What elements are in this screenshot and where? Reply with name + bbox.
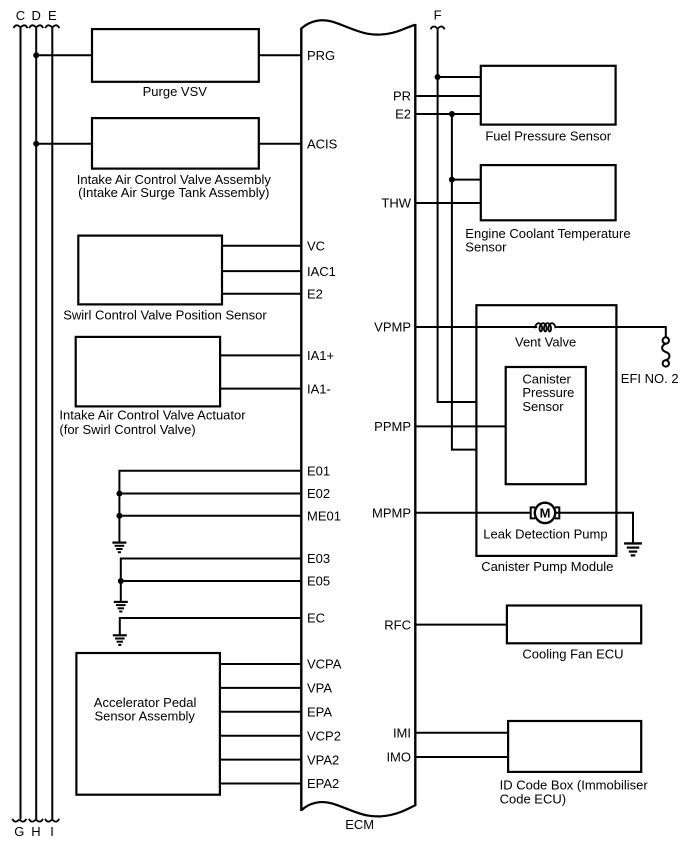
connector H bbox=[29, 819, 43, 839]
junction dot E05 bbox=[118, 578, 124, 584]
wire IMI bbox=[415, 732, 508, 734]
svg-text:IMO: IMO bbox=[386, 750, 411, 765]
wire E05 bbox=[121, 580, 301, 582]
connector E bbox=[45, 8, 59, 28]
svg-text:D: D bbox=[32, 8, 41, 23]
wire VCP2 bbox=[220, 735, 301, 737]
connector F bbox=[431, 8, 445, 30]
ground 1 bbox=[112, 543, 126, 553]
svg-text:E02: E02 bbox=[307, 486, 330, 501]
svg-text:E: E bbox=[48, 8, 57, 23]
fuse EFI NO. 2 bbox=[662, 337, 669, 366]
svg-text:Sensor: Sensor bbox=[522, 399, 564, 414]
svg-text:E2: E2 bbox=[395, 107, 411, 122]
wire RFC bbox=[415, 624, 507, 626]
svg-text:Pressure: Pressure bbox=[522, 385, 574, 400]
wire rail E bbox=[51, 28, 53, 820]
svg-text:E05: E05 bbox=[307, 574, 330, 589]
Fuel Pressure Sensor bbox=[481, 66, 616, 144]
svg-text:PR: PR bbox=[393, 89, 411, 104]
wire VCPA bbox=[220, 663, 301, 665]
svg-text:VC: VC bbox=[307, 239, 325, 254]
ground 3 bbox=[113, 635, 127, 645]
wire THW bbox=[415, 202, 481, 204]
junction dot ECT branch bbox=[449, 177, 455, 183]
wire EPA bbox=[220, 711, 301, 713]
svg-text:PPMP: PPMP bbox=[374, 419, 411, 434]
svg-text:VPA: VPA bbox=[307, 681, 332, 696]
ground 2 bbox=[114, 602, 128, 612]
wire VC bbox=[222, 245, 301, 247]
wire E03 bbox=[121, 559, 301, 602]
wire E02 bbox=[119, 493, 301, 495]
svg-text:H: H bbox=[31, 824, 40, 839]
wire D to Purge VSV bbox=[36, 54, 92, 56]
svg-text:IA1-: IA1- bbox=[307, 381, 331, 396]
ground 4 bbox=[624, 543, 642, 555]
svg-text:Canister Pump Module: Canister Pump Module bbox=[481, 559, 613, 574]
junction dot E2 branch bbox=[449, 111, 455, 117]
junction dot E02 bbox=[116, 491, 122, 497]
junction dot F branch bbox=[435, 74, 441, 80]
svg-text:Swirl Control Valve Position S: Swirl Control Valve Position Sensor bbox=[63, 308, 267, 323]
wire IA1+ bbox=[220, 354, 301, 356]
wire IA1- bbox=[220, 388, 301, 390]
svg-text:Code ECU): Code ECU) bbox=[500, 792, 566, 807]
wire E2 left bbox=[222, 293, 301, 295]
inductor vent valve coil bbox=[535, 323, 557, 331]
svg-text:EFI NO. 2: EFI NO. 2 bbox=[621, 371, 679, 386]
Intake Air Control Valve Assembly bbox=[77, 118, 272, 200]
svg-text:E03: E03 bbox=[307, 551, 330, 566]
wire IAC1 bbox=[222, 270, 301, 272]
wire F branch to Fuel Pressure Sensor bbox=[438, 76, 481, 78]
junction dot D/Purge bbox=[33, 52, 39, 58]
Intake Air Control Valve Actuator bbox=[59, 337, 246, 437]
svg-text:VPA2: VPA2 bbox=[307, 752, 339, 767]
svg-text:VCP2: VCP2 bbox=[307, 728, 341, 743]
wire PPMP bbox=[415, 425, 505, 427]
svg-text:M: M bbox=[540, 506, 551, 521]
wire F line bbox=[438, 29, 506, 402]
svg-text:ECM: ECM bbox=[345, 817, 374, 832]
motor leak detection pump bbox=[531, 503, 560, 523]
connector I bbox=[45, 819, 59, 839]
connector C bbox=[14, 8, 28, 28]
svg-text:IMI: IMI bbox=[393, 726, 411, 741]
Canister Pump Module box bbox=[476, 305, 616, 574]
svg-text:PRG: PRG bbox=[307, 48, 335, 63]
wire ECT top branch bbox=[452, 179, 481, 181]
svg-text:E2: E2 bbox=[307, 287, 323, 302]
svg-text:VCPA: VCPA bbox=[307, 657, 342, 672]
svg-text:ACIS: ACIS bbox=[307, 136, 338, 151]
Cooling Fan ECU bbox=[507, 606, 641, 662]
svg-text:ID Code Box (Immobiliser: ID Code Box (Immobiliser bbox=[500, 777, 649, 792]
svg-text:MPMP: MPMP bbox=[372, 505, 411, 520]
wire IMO bbox=[415, 756, 508, 758]
svg-text:Sensor: Sensor bbox=[465, 239, 507, 254]
wire PR bbox=[415, 95, 481, 97]
wire MPMP bbox=[415, 512, 531, 514]
svg-text:G: G bbox=[14, 824, 24, 839]
junction dot D/ACIS bbox=[33, 141, 39, 147]
ECM U1 body bbox=[301, 20, 415, 816]
svg-text:RFC: RFC bbox=[384, 617, 411, 632]
wire E2 right bbox=[415, 113, 481, 115]
svg-text:VPMP: VPMP bbox=[374, 320, 411, 335]
svg-text:THW: THW bbox=[381, 196, 411, 211]
wire ME01 bbox=[119, 515, 301, 517]
wire VPMP bbox=[415, 326, 537, 328]
svg-text:C: C bbox=[16, 8, 25, 23]
svg-text:I: I bbox=[50, 824, 54, 839]
wire vent valve to EFI bbox=[557, 327, 666, 338]
wire VPA bbox=[220, 687, 301, 689]
svg-text:Cooling Fan ECU: Cooling Fan ECU bbox=[522, 646, 623, 661]
wire Purge VSV to PRG bbox=[259, 54, 302, 56]
svg-text:EC: EC bbox=[307, 611, 325, 626]
svg-text:IAC1: IAC1 bbox=[307, 264, 336, 279]
Purge VSV bbox=[92, 29, 259, 99]
svg-text:Purge VSV: Purge VSV bbox=[143, 84, 208, 99]
svg-text:F: F bbox=[434, 8, 442, 23]
svg-text:Vent Valve: Vent Valve bbox=[515, 334, 576, 349]
junction dot ME01 bbox=[116, 513, 122, 519]
connector G bbox=[12, 819, 26, 839]
svg-text:Fuel Pressure Sensor: Fuel Pressure Sensor bbox=[485, 128, 611, 143]
wire motor to ground bbox=[555, 513, 633, 544]
wire E01 bbox=[119, 471, 301, 543]
svg-text:Sensor Assembly: Sensor Assembly bbox=[95, 709, 196, 724]
Canister Pressure Sensor box bbox=[506, 367, 586, 484]
svg-text:Canister: Canister bbox=[522, 371, 571, 386]
wire EPA2 bbox=[220, 783, 301, 785]
Accelerator Pedal Sensor Assembly bbox=[76, 653, 220, 795]
svg-text:Intake Air Control Valve Actua: Intake Air Control Valve Actuator bbox=[59, 408, 246, 423]
connector D bbox=[29, 8, 43, 28]
wire EC bbox=[120, 618, 301, 635]
wire ACIS bbox=[259, 143, 302, 145]
svg-text:Leak Detection Pump: Leak Detection Pump bbox=[483, 526, 607, 541]
svg-text:E01: E01 bbox=[307, 463, 330, 478]
svg-text:IA1+: IA1+ bbox=[307, 348, 334, 363]
svg-text:EPA2: EPA2 bbox=[307, 776, 339, 791]
wire E2 branch line bbox=[452, 114, 506, 450]
svg-text:(for Swirl Control Valve): (for Swirl Control Valve) bbox=[59, 422, 195, 437]
wire VPA2 bbox=[220, 759, 301, 761]
wire rail C bbox=[20, 28, 22, 820]
svg-text:EPA: EPA bbox=[307, 705, 332, 720]
svg-text:ME01: ME01 bbox=[307, 508, 341, 523]
ID Code Box bbox=[500, 721, 649, 807]
svg-text:(Intake Air Surge Tank Assembl: (Intake Air Surge Tank Assembly) bbox=[78, 185, 269, 200]
Engine Coolant Temperature Sensor bbox=[465, 165, 630, 254]
wire rail D bbox=[35, 28, 37, 820]
wire D to Intake Air Control Valve Assembly bbox=[36, 143, 92, 145]
Swirl Control Valve Position Sensor bbox=[63, 236, 267, 323]
